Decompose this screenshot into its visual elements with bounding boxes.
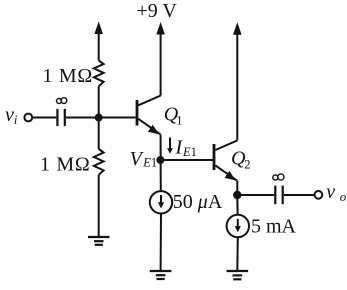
svg-text:2: 2 [244,157,250,171]
power arrow Q2 collector rail [233,22,242,140]
wire input node to R2 top [98,118,100,150]
capacitor C1 (input, infinite) [57,109,64,126]
wire output node to C2 [237,194,274,196]
label C1 infinity [57,98,67,104]
power arrow on left bias rail [94,22,103,61]
wire Q2 emitter down to output node [236,181,238,195]
svg-text:1 MΩ: 1 MΩ [40,154,90,176]
svg-text:+9 V: +9 V [137,0,178,22]
wire C2 to output terminal [284,194,315,196]
resistor R1 1 MOhm (top) [94,61,104,87]
wire terminal to C1 [32,117,56,119]
node base of Q1 (junction dot) [95,114,103,122]
resistor R2 1 MOhm (bottom) [94,149,104,175]
svg-text:50 μA: 50 μA [173,191,223,213]
wire R2 bottom to ground [98,175,100,237]
capacitor C2 (output, infinite) [275,186,282,205]
wire VE1 to Q2 base [160,159,213,161]
svg-text:E1: E1 [182,145,197,159]
transistor Q2 (npn) [214,140,237,180]
wire I2 to ground [236,237,239,271]
input terminal circle [24,114,32,122]
wire C1 to Q1 base [66,117,136,119]
svg-text:5 mA: 5 mA [251,216,297,238]
node output (junction dot) [233,191,241,199]
output terminal circle [315,191,323,199]
svg-text:E1: E1 [142,156,157,170]
wire output node down to current source I2 [236,195,238,215]
wire VE1 down to current source I1 [160,160,162,191]
ground (middle, under I1) [150,271,172,279]
label C2 infinity [273,174,284,180]
wire R1 bottom to input node [98,86,100,117]
svg-text:1: 1 [176,114,182,128]
current source I1 50 uA [150,191,172,213]
current arrow I_E1 [167,138,173,154]
wire I1 to ground [160,214,162,272]
ground (right, under I2) [227,271,249,279]
svg-text:1 MΩ: 1 MΩ [43,65,93,87]
ground (left, under R2) [88,237,110,245]
node VE1 (junction dot) [156,156,164,164]
current source I2 5 mA [227,215,249,237]
transistor Q1 (npn) [137,96,161,135]
power arrow +9V rail (Q1 collector) [156,22,165,96]
wire Q1 emitter down to node VE1 [160,135,162,160]
